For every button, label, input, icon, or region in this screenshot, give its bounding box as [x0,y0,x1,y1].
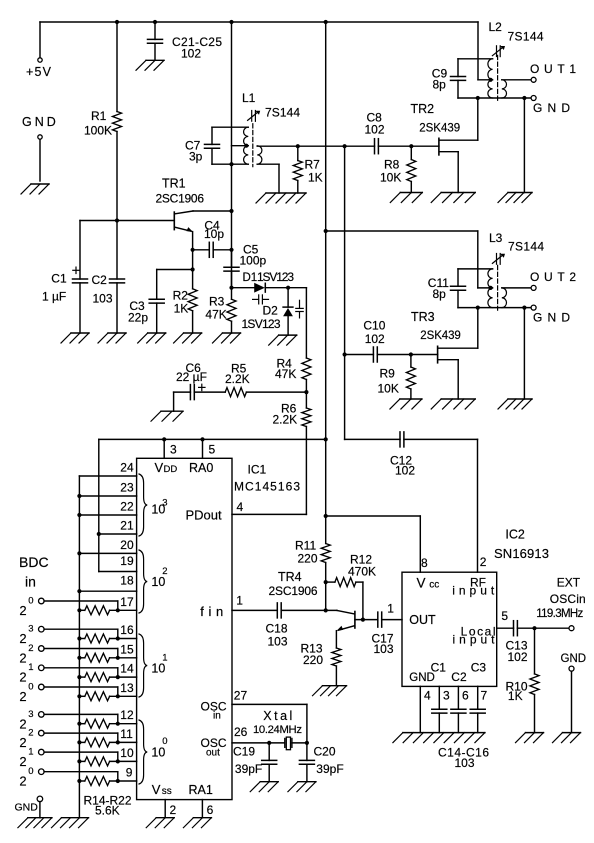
node bus B pin 20 [77,551,81,555]
svg-text:10p: 10p [204,227,224,241]
svg-text:0: 0 [28,681,33,692]
svg-text:3: 3 [28,624,33,635]
resistor R17 5.6K on pin 14 [79,676,84,678]
svg-text:103: 103 [93,292,113,306]
node TR3 drain junction [476,306,480,310]
wire RF bus to C12 [345,438,400,440]
wire L3 secondary to OUT2 [502,287,531,289]
node pin5 rail [200,437,204,441]
transistor TR3 2SK439 [437,346,439,363]
svg-text:EXT: EXT [557,576,581,590]
terminal BDC input 2^1 (pin 10) [39,749,45,755]
terminal BDC input 2^3 (pin 12) [39,712,45,718]
svg-text:R8: R8 [384,158,400,172]
node C19 junction [267,741,271,745]
svg-text:10: 10 [151,661,165,675]
svg-text:7: 7 [481,689,488,703]
svg-text:5: 5 [209,443,216,457]
capacitor C20 39pF [306,743,308,761]
svg-text:2: 2 [19,631,26,646]
resistor R7 1K [297,146,299,160]
svg-text:GND: GND [15,802,39,814]
ground R3 [223,332,241,334]
svg-text:10: 10 [120,746,134,760]
node L2 ground junction [522,96,526,100]
capacitor C7 3p [211,127,213,144]
terminal BDC input 2^0 (pin 9) [39,769,45,775]
capacitor C19 39pF [268,743,270,761]
node TR4 collector [324,608,328,612]
resistor R22 5.6K on pin 9 [79,780,84,782]
ground R8 [400,192,422,194]
node L3 ground junction [522,306,526,310]
node C21 rail junction [153,20,157,24]
resistor R1 100K [116,22,118,112]
node C20 junction [305,741,309,745]
svg-text:out: out [206,748,220,759]
node L3 center tap [489,286,493,290]
node bus B pin 14 [77,675,81,679]
svg-text:103: 103 [455,756,475,770]
wire L3 box bottom / output ground line [458,307,531,309]
svg-text:C18: C18 [266,622,288,636]
svg-text:2: 2 [19,735,26,750]
node R8 top [409,144,413,148]
node bus B pin 12 [77,722,81,726]
brace digit group 10^1 [139,634,147,697]
svg-text:100K: 100K [84,124,112,138]
svg-text:L1: L1 [242,91,256,105]
svg-text:R2: R2 [173,289,189,303]
resistor R18 5.6K on pin 13 [79,695,84,697]
resistor R8 10K [410,146,412,159]
svg-text:2: 2 [19,650,26,665]
ground D2 [279,334,297,336]
node bus B pin 23 [77,494,81,498]
svg-text:220: 220 [303,653,323,667]
svg-text:C1: C1 [51,272,67,286]
ground TR3 source [441,398,475,400]
svg-text:2: 2 [19,670,26,685]
pin 5 stub [497,627,514,629]
node L1 bottom junction [229,162,233,166]
wire L3 ground down [523,308,525,399]
svg-text:2: 2 [170,803,177,817]
svg-text:22 µF: 22 µF [176,370,207,384]
svg-text:102: 102 [365,123,385,137]
node bus B pin 16 [77,636,81,640]
transistor TR4 2SC1906 [354,612,356,629]
pin 7 stub with C16 [477,686,479,709]
ground GND bottom-left [28,817,52,819]
svg-text:R1: R1 [91,109,107,123]
wire +5V column down [325,439,327,543]
svg-text:2: 2 [19,754,26,769]
ground for GND terminal [31,183,49,185]
svg-text:C10: C10 [363,319,385,333]
wire bus A VDD to pins [98,439,100,571]
svg-text:in: in [25,574,36,590]
ground for C21-C25 [146,59,164,61]
wire L3 box top [458,268,493,270]
svg-text:8: 8 [421,556,428,570]
node bus B pin 17 [77,608,81,612]
svg-text:2: 2 [19,603,26,618]
capacitor C5 100p [231,250,233,267]
diode D2 1SV123 varicap [287,288,289,307]
svg-text:8p: 8p [433,78,447,92]
svg-text:+5V: +5V [26,65,52,79]
capacitor C13 102 [513,621,515,636]
svg-text:2: 2 [19,689,26,704]
ground bus B [62,817,89,819]
svg-text:1SV123: 1SV123 [257,270,294,284]
svg-text:1K: 1K [508,689,523,703]
ground C3 [148,332,166,334]
svg-text:17: 17 [120,595,134,609]
svg-text:2.2K: 2.2K [273,412,298,426]
svg-text:10K: 10K [380,171,401,185]
IC IC2 SN16913 body [402,572,497,686]
pin 6 stub [201,800,203,818]
wire L2 ground down [523,98,525,193]
wire VDD rail [99,438,326,440]
terminal GND OUT2 [531,305,536,310]
capacitor C6 22uF electrolytic [189,385,191,400]
svg-text:39pF: 39pF [316,762,343,776]
node +5V to L3 feed [324,229,328,233]
wire L2 box top [458,58,493,60]
resistor R19 5.6K on pin 12 [79,723,84,725]
svg-text:R3: R3 [209,295,225,309]
capacitor C21-C25 102 [154,22,156,39]
pin 18 stub [79,590,136,592]
ground C19 [260,781,278,783]
svg-text:102: 102 [181,47,201,61]
svg-text:2: 2 [19,716,26,731]
svg-text:15: 15 [120,642,134,656]
svg-text:7S144: 7S144 [265,105,300,119]
svg-text:RA0: RA0 [189,461,213,475]
svg-text:10: 10 [151,575,165,589]
svg-text:47K: 47K [275,367,296,381]
svg-text:0: 0 [28,595,33,606]
ground pin6 [193,817,211,819]
pin 3 stub with C14 [438,686,440,709]
ground R13 [323,685,347,687]
terminal BDC input 2^2 (pin 11) [39,730,45,736]
node L2 center tap [489,78,493,82]
terminal BDC input 2^0 (pin 17) [39,598,45,604]
svg-text:5.6K: 5.6K [95,804,120,818]
resistor R4 47K [302,358,311,380]
capacitor C10 102 [372,347,374,362]
svg-text:PDout: PDout [186,508,223,523]
ground C6 [161,410,183,412]
inductor L2 7S144 [497,55,499,100]
terminal BDC input 2^0 (pin 13) [39,684,45,690]
capacitor C18 103 [276,603,278,618]
node R7 top [296,144,300,148]
svg-text:RA1: RA1 [189,783,213,797]
svg-text:1: 1 [236,594,243,608]
terminal BDC input 2^2 (pin 15) [39,646,45,652]
svg-text:470K: 470K [348,565,376,579]
ground IC2 bypass [403,732,485,734]
node pin 15 input junction [116,656,120,660]
node RF takeoff [343,144,347,148]
wire +5V top rail [40,21,478,23]
svg-text:2: 2 [28,728,33,739]
ground R10 [526,732,544,734]
svg-text:L2: L2 [489,20,503,34]
node pin 14 input junction [116,675,120,679]
svg-text:102: 102 [365,332,385,346]
brace digit group 10^3 [139,474,147,536]
node pin 10 input junction [116,759,120,763]
pin 24 stub [79,475,136,477]
node TR1 collector [229,209,233,213]
ground L1 secondary / R7 [266,192,306,194]
svg-text:IC2: IC2 [505,528,525,542]
svg-text:2: 2 [480,555,487,569]
svg-text:2SC1906: 2SC1906 [269,584,318,598]
svg-text:23: 23 [120,481,134,495]
wire L2 secondary to OUT1 [502,79,531,81]
resistor R13 220 [332,648,341,666]
node L1 center tap [244,144,248,148]
node R12 to base [361,618,365,622]
svg-text:R11: R11 [295,539,316,553]
node pin 9 input junction [116,779,120,783]
inductor L1 7S144 [252,124,254,167]
ground C1 [71,332,89,334]
svg-text:MC145163: MC145163 [234,480,300,494]
wire +5V feed to L3 [326,230,478,232]
wire TR2 drain to L2 [477,98,479,140]
svg-text:2: 2 [162,566,167,577]
node pin 17 input junction [116,608,120,612]
wire TR4 base line [355,619,378,621]
svg-text:2.2K: 2.2K [225,372,250,386]
svg-text:10: 10 [151,745,165,759]
ground R9 [400,398,422,400]
svg-text:0: 0 [162,736,167,747]
svg-text:14: 14 [120,662,134,676]
svg-text:GND: GND [533,311,570,325]
node R11-R12 [324,580,328,584]
wire L1 box top [212,126,248,128]
ground L2 output [508,192,532,194]
node D1 anode [229,286,233,290]
svg-text:C2: C2 [451,670,467,684]
ground C2 [108,332,126,334]
terminal EXT OSCin [569,626,574,631]
node R9 top [409,352,413,356]
resistor R5 2.2K [225,388,246,397]
svg-text:OUT: OUT [409,613,436,627]
svg-text:24: 24 [120,461,134,475]
svg-text:4: 4 [424,689,431,703]
svg-text:3: 3 [443,689,450,703]
svg-text:9: 9 [126,766,133,780]
svg-text:3: 3 [162,498,167,509]
wire +5V to IC2 Vcc [326,515,421,517]
capacitor C17 103 [377,612,379,627]
svg-text:119.3MHz: 119.3MHz [536,608,583,620]
svg-text:D1: D1 [243,272,258,284]
svg-text:1SV123: 1SV123 [242,317,281,331]
node bus B pin 18 [77,589,81,593]
svg-text:4: 4 [237,500,244,514]
svg-text:DD: DD [164,464,178,475]
ground pin2 [156,817,174,819]
svg-text:TR3: TR3 [411,310,435,324]
svg-text:3: 3 [170,443,177,457]
wire L1 center tap [232,145,249,147]
wire +5V bus down [325,22,327,439]
node pin 16 input junction [116,636,120,640]
svg-text:C19: C19 [233,745,255,759]
svg-text:2: 2 [19,774,26,789]
resistor R16 5.6K on pin 15 [79,657,84,659]
svg-text:V: V [417,576,426,591]
svg-text:1K: 1K [308,171,323,185]
capacitor C8 102 [374,139,376,154]
svg-text:in: in [213,711,221,722]
terminal BDC input 2^1 (pin 14) [39,665,45,671]
svg-text:5: 5 [501,609,508,623]
inductor L3 7S144 [497,265,499,310]
node rail to +5V bus [324,20,328,24]
node R1-rail junction [115,20,119,24]
svg-text:6: 6 [462,689,469,703]
svg-text:10K: 10K [378,382,399,396]
node TR2 drain junction [476,96,480,100]
resistor R14 5.6K on pin 17 [79,609,84,611]
node VCO column rail junction [229,20,233,24]
resistor R3 47K [231,288,233,300]
svg-text:26: 26 [234,725,248,739]
node TR3 gate takeoff [343,352,347,356]
node rail to +5V column [324,437,328,441]
svg-text:GND: GND [533,101,570,115]
svg-text:R9: R9 [380,367,396,381]
node D2 top [286,286,290,290]
wire PDout to R6 [232,513,306,515]
svg-text:7S144: 7S144 [508,30,544,44]
svg-text:TR2: TR2 [411,102,435,116]
svg-text:C2: C2 [92,273,108,287]
svg-text:100p: 100p [240,254,267,268]
pin 19 stub [99,571,137,573]
node bus A pin21 [97,532,101,536]
svg-text:SN16913: SN16913 [494,546,549,561]
resistor R6 2.2K [305,392,307,408]
svg-text:V: V [152,782,161,797]
svg-text:47K: 47K [205,308,226,322]
node C3 branch [191,267,195,271]
svg-text:2SC1906: 2SC1906 [156,192,205,206]
wire +5V feed to L2 [477,22,479,80]
pin 4 stub [419,686,421,732]
wire VCO main column [231,22,233,288]
wire L1 secondary bottom to ground [257,163,279,165]
ground R2 [184,332,202,334]
node bus B pin 11 [77,740,81,744]
svg-text:19: 19 [120,554,134,568]
svg-text:16: 16 [120,623,134,637]
node TR1 emitter / C4 [191,248,195,252]
resistor R2 1K [188,289,197,311]
svg-text:8p: 8p [433,287,447,301]
crystal Xtal 10.24MHz [284,739,286,748]
ground L3 output [508,398,532,400]
resistor R21 5.6K on pin 10 [79,760,84,762]
svg-text:18: 18 [120,574,134,588]
svg-text:TR1: TR1 [162,177,186,191]
svg-text:21: 21 [120,519,134,533]
svg-text:C1: C1 [431,660,447,674]
node bus B pin 9 [77,779,81,783]
svg-text:1: 1 [28,747,33,758]
svg-text:1K: 1K [174,302,189,316]
resistor R12 470K [326,581,335,583]
wire TR1 base line [80,220,174,222]
capacitor C3 22p [157,269,193,271]
svg-text:103: 103 [268,635,288,649]
svg-text:2SK439: 2SK439 [419,123,460,135]
node Vcc branch [324,514,328,518]
resistor R15 5.6K on pin 16 [79,638,84,640]
svg-text:7S144: 7S144 [508,240,544,254]
ground GND right [563,732,581,734]
pin 22 stub [79,514,136,516]
pin 3 VDD stub [163,439,165,458]
pin 20 stub [79,552,136,554]
svg-text:10.24MHz: 10.24MHz [253,724,302,736]
resistor R9 10K [410,355,412,368]
svg-text:L3: L3 [489,231,503,245]
svg-text:3: 3 [28,709,33,720]
resistor R10 1K [534,628,536,674]
svg-text:2: 2 [28,643,33,654]
svg-text:BDC: BDC [19,554,49,570]
wire TR3 gate line [345,354,374,356]
svg-text:C20: C20 [314,745,336,759]
node bus B pin 22 [77,513,81,517]
capacitor C2 103 [116,221,118,280]
svg-text:TR4: TR4 [278,570,302,584]
svg-text:1 µF: 1 µF [42,290,66,304]
svg-text:103: 103 [374,642,394,656]
node loop filter junction [304,390,308,394]
node pin 13 input junction [116,694,120,698]
resistor R20 5.6K on pin 11 [79,741,84,743]
svg-text:22: 22 [120,500,134,514]
svg-text:39pF: 39pF [235,762,262,776]
capacitor C12 102 [399,432,401,447]
wire VCO signal line [257,145,374,147]
ground C20 [298,781,316,783]
svg-text:GND: GND [22,115,59,129]
node pin 12 input junction [116,722,120,726]
node C13-R10 [532,626,536,630]
capacitor C1 1uF electrolytic [79,221,81,280]
svg-text:cc: cc [429,580,439,591]
wire L1 box bottom [212,163,248,165]
node bus B pin 15 [77,656,81,660]
